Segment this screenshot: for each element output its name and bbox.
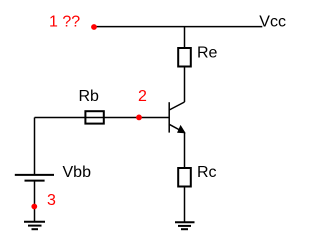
wire Vcc rail (top horizontal) [94,26,262,28]
wire battery to ground [34,181,36,222]
transistor Q1 emitter arrowhead [178,126,185,133]
svg-text:Vbb: Vbb [63,164,92,181]
resistor Re [178,48,191,67]
transistor Q1 base bar [168,102,170,132]
transistor Q1 collector lead [169,102,184,110]
wire emitter to Rc [184,133,186,169]
svg-text:Vcc: Vcc [259,13,286,30]
battery Vbb positive plate [15,174,54,176]
svg-text:Rc: Rc [197,164,217,181]
wire Rc to ground [184,187,186,223]
ground (right) [175,222,195,229]
wire Re to transistor collector [184,67,186,103]
wire left vertical to battery [34,118,36,175]
svg-text:2: 2 [138,88,147,105]
ground (left) [24,222,45,230]
node 2 (junction dot) [136,115,142,121]
transistor Q1 emitter lead [169,124,184,132]
wire Vcc rail to Re [184,27,186,48]
svg-text:3: 3 [47,192,56,209]
battery Vbb negative plate [25,180,45,182]
resistor Rb [85,111,103,123]
svg-text:1 ??: 1 ?? [49,13,80,30]
node 1 (junction dot) [91,24,97,30]
svg-text:Rb: Rb [79,88,100,105]
svg-text:Re: Re [197,45,218,62]
wire base (horizontal) [35,117,170,119]
resistor Rc [178,168,191,187]
node 3 (junction dot) [31,204,37,210]
